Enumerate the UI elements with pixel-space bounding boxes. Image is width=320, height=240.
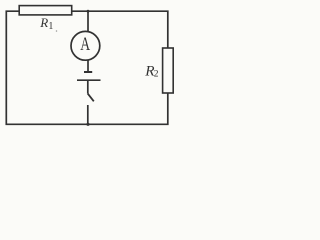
svg-text:2: 2 <box>154 70 159 80</box>
svg-text:A: A <box>80 34 90 54</box>
svg-text:1: 1 <box>48 21 53 32</box>
svg-text:R: R <box>39 15 48 30</box>
